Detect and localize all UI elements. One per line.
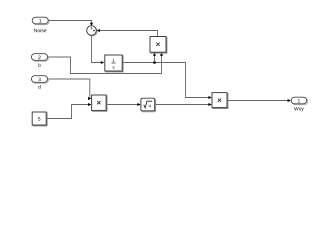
label b (38, 63, 40, 67)
arrow into product1 in2 (88, 103, 92, 106)
wire branch up to productU in1 (154, 55, 156, 62)
wire port1 to sum (48, 21, 91, 25)
sum block (87, 26, 97, 36)
arrow into sqrt (137, 103, 141, 106)
sqrt block (141, 98, 156, 112)
arrow into sum top (90, 23, 93, 27)
wire port2 to productU in2 (48, 55, 162, 73)
product block up (rotated) (150, 37, 167, 54)
inport 3 (31, 76, 48, 84)
inport 1 (32, 17, 49, 25)
integrator block 1/s (105, 55, 123, 72)
product block P2 (212, 93, 228, 109)
arrow into outport (288, 99, 292, 102)
wire product1 to sqrt (106, 104, 138, 106)
wire product2 to outport (227, 100, 288, 102)
constant block 5 (32, 112, 47, 126)
junction dot (153, 61, 156, 64)
wire sum to integrator (92, 35, 102, 62)
label d (38, 85, 40, 89)
wire integrator out to product2 in1 (122, 63, 209, 98)
arrow into product2 in2 (208, 103, 212, 106)
outport 1 (291, 97, 307, 105)
wire sqrt to product2 in2 (155, 104, 209, 106)
wire productU out to sum right (99, 31, 158, 37)
arrow into sum right (97, 29, 101, 32)
label Wxy (294, 107, 304, 111)
wire constant to product1 in2 (46, 105, 88, 119)
arrow up into productU in2 (160, 52, 163, 56)
arrow into product2 in1 (208, 96, 212, 99)
wire port3 to product1 in1 (48, 79, 90, 99)
product block P1 (92, 95, 107, 111)
arrow into integrator (101, 61, 105, 64)
arrow into product1 in1 (88, 97, 92, 100)
inport 2 (31, 54, 48, 61)
label Noise (34, 29, 46, 33)
arrow up into productU in1 (153, 52, 156, 56)
